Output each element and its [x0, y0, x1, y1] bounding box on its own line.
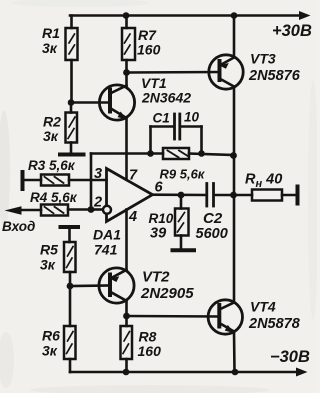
resistor R4	[41, 205, 68, 216]
node output / C2 / Rn	[230, 192, 237, 199]
svg-text:R9 5,6к: R9 5,6к	[160, 167, 206, 182]
ground bar above R5	[61, 225, 79, 229]
svg-text:5600: 5600	[196, 226, 228, 242]
svg-text:R10: R10	[149, 211, 174, 226]
svg-text:C1: C1	[153, 111, 170, 126]
svg-text:7: 7	[129, 168, 138, 184]
transistor VT3	[209, 55, 243, 89]
svg-text:160: 160	[138, 343, 162, 359]
bottom rail arrowhead	[296, 368, 308, 377]
svg-text:160: 160	[137, 42, 161, 58]
wire pin2 to bubble	[91, 208, 104, 211]
resistor R1	[66, 16, 78, 103]
transistor VT4	[208, 300, 242, 334]
wire VT2 base	[70, 284, 111, 287]
wire VT1 collector	[125, 73, 128, 87]
transistor VT2	[99, 268, 134, 303]
capacitor C2 plates	[207, 184, 234, 207]
svg-text:2N5876: 2N5876	[248, 68, 301, 84]
node R7/VT1/VT3 base	[123, 69, 130, 76]
op-amp DA1 triangle	[107, 169, 153, 222]
svg-text:Rн 40: Rн 40	[245, 172, 282, 191]
svg-text:2N3642: 2N3642	[141, 90, 191, 106]
resistor Rn load	[234, 190, 297, 201]
resistor R7	[122, 16, 135, 73]
svg-text:3к: 3к	[42, 40, 58, 56]
svg-text:R3 5,6к: R3 5,6к	[28, 158, 76, 173]
wire R9 to output column	[189, 154, 234, 156]
svg-text:3к: 3к	[42, 343, 58, 359]
ground bar below R2	[60, 153, 84, 157]
svg-text:VT4: VT4	[250, 299, 276, 315]
node pin2 junction	[88, 206, 95, 213]
resistor R2	[66, 103, 78, 153]
resistor R5	[64, 227, 76, 286]
svg-text:2: 2	[93, 195, 102, 211]
node feedback tap on output column	[230, 152, 237, 159]
transistor VT1	[99, 85, 134, 120]
svg-text:R6: R6	[42, 328, 60, 344]
svg-text:2N5878: 2N5878	[248, 316, 301, 332]
wire R4 left	[21, 209, 41, 212]
wire R4 to pin2 junction	[68, 208, 91, 211]
svg-text:3к: 3к	[40, 257, 56, 273]
capacitor C1 loop wires	[151, 127, 202, 154]
node top rail / R7	[123, 12, 130, 19]
capacitor C1 plates	[175, 114, 180, 139]
resistor R6	[64, 286, 76, 372]
top rail arrowhead	[299, 11, 311, 20]
svg-text:DA1: DA1	[93, 227, 121, 243]
svg-text:C2: C2	[203, 210, 223, 227]
wire R3 left	[23, 179, 42, 182]
wire output column (VT3 collector to VT4 collector)	[233, 87, 236, 303]
wire feedback vertical	[90, 154, 93, 210]
resistor R3	[41, 175, 69, 186]
wire VT3 emitter to rail	[233, 16, 236, 58]
node C1 right junction	[198, 150, 205, 157]
input arrow	[5, 206, 22, 214]
resistor R10	[175, 195, 189, 248]
svg-text:2N2905: 2N2905	[140, 285, 194, 302]
svg-text:4: 4	[128, 209, 137, 225]
svg-text:VT2: VT2	[142, 269, 170, 286]
wire VT4 base	[127, 315, 220, 318]
node bottom rail / VT4 emitter	[232, 369, 239, 376]
terminal bar right of Rn	[296, 187, 300, 204]
wire pin7 (VT1 emitter to op-amp)	[125, 118, 128, 178]
node R10 top	[178, 192, 185, 199]
wire pin4 (op-amp to VT2 emitter)	[125, 210, 128, 271]
svg-text:−30В: −30В	[270, 348, 310, 366]
op-amp inverting bubble	[103, 206, 111, 214]
node bottom rail / R8	[123, 369, 130, 376]
node VT2/R8/VT4 base	[123, 313, 130, 320]
ground bar left of R3	[21, 172, 25, 189]
wire bottom -30V rail	[70, 371, 299, 374]
node R5/R6/VT2 base	[67, 283, 74, 290]
svg-text:3: 3	[94, 166, 102, 182]
wire VT2 collector to node	[125, 301, 128, 316]
node top rail / VT3 emitter	[231, 12, 238, 19]
wire pin3 input	[69, 179, 107, 182]
node A: R1/R2/VT1 base	[68, 99, 75, 106]
svg-text:VT3: VT3	[250, 51, 276, 67]
wire VT1 base	[71, 101, 110, 104]
wire feedback horizontal	[91, 152, 163, 155]
wire VT4 emitter to rail	[233, 332, 236, 373]
svg-text:R4 5,6к: R4 5,6к	[30, 190, 78, 205]
svg-text:6: 6	[155, 180, 164, 196]
wire top +30V rail	[70, 14, 302, 17]
resistor R9	[163, 148, 189, 159]
svg-text:10: 10	[184, 110, 200, 125]
svg-text:741: 741	[94, 242, 118, 258]
svg-text:3к: 3к	[43, 128, 59, 144]
svg-text:Вход: Вход	[2, 219, 35, 234]
svg-text:+30В: +30В	[272, 22, 312, 40]
svg-text:R1: R1	[42, 25, 60, 41]
wire VT3 base	[127, 71, 220, 74]
wire pin6 output	[153, 193, 207, 196]
node C1 left junction	[147, 150, 154, 157]
resistor R8	[121, 316, 133, 372]
svg-text:R5: R5	[40, 242, 58, 258]
svg-text:39: 39	[150, 226, 166, 242]
ground bar below R10	[173, 248, 195, 252]
